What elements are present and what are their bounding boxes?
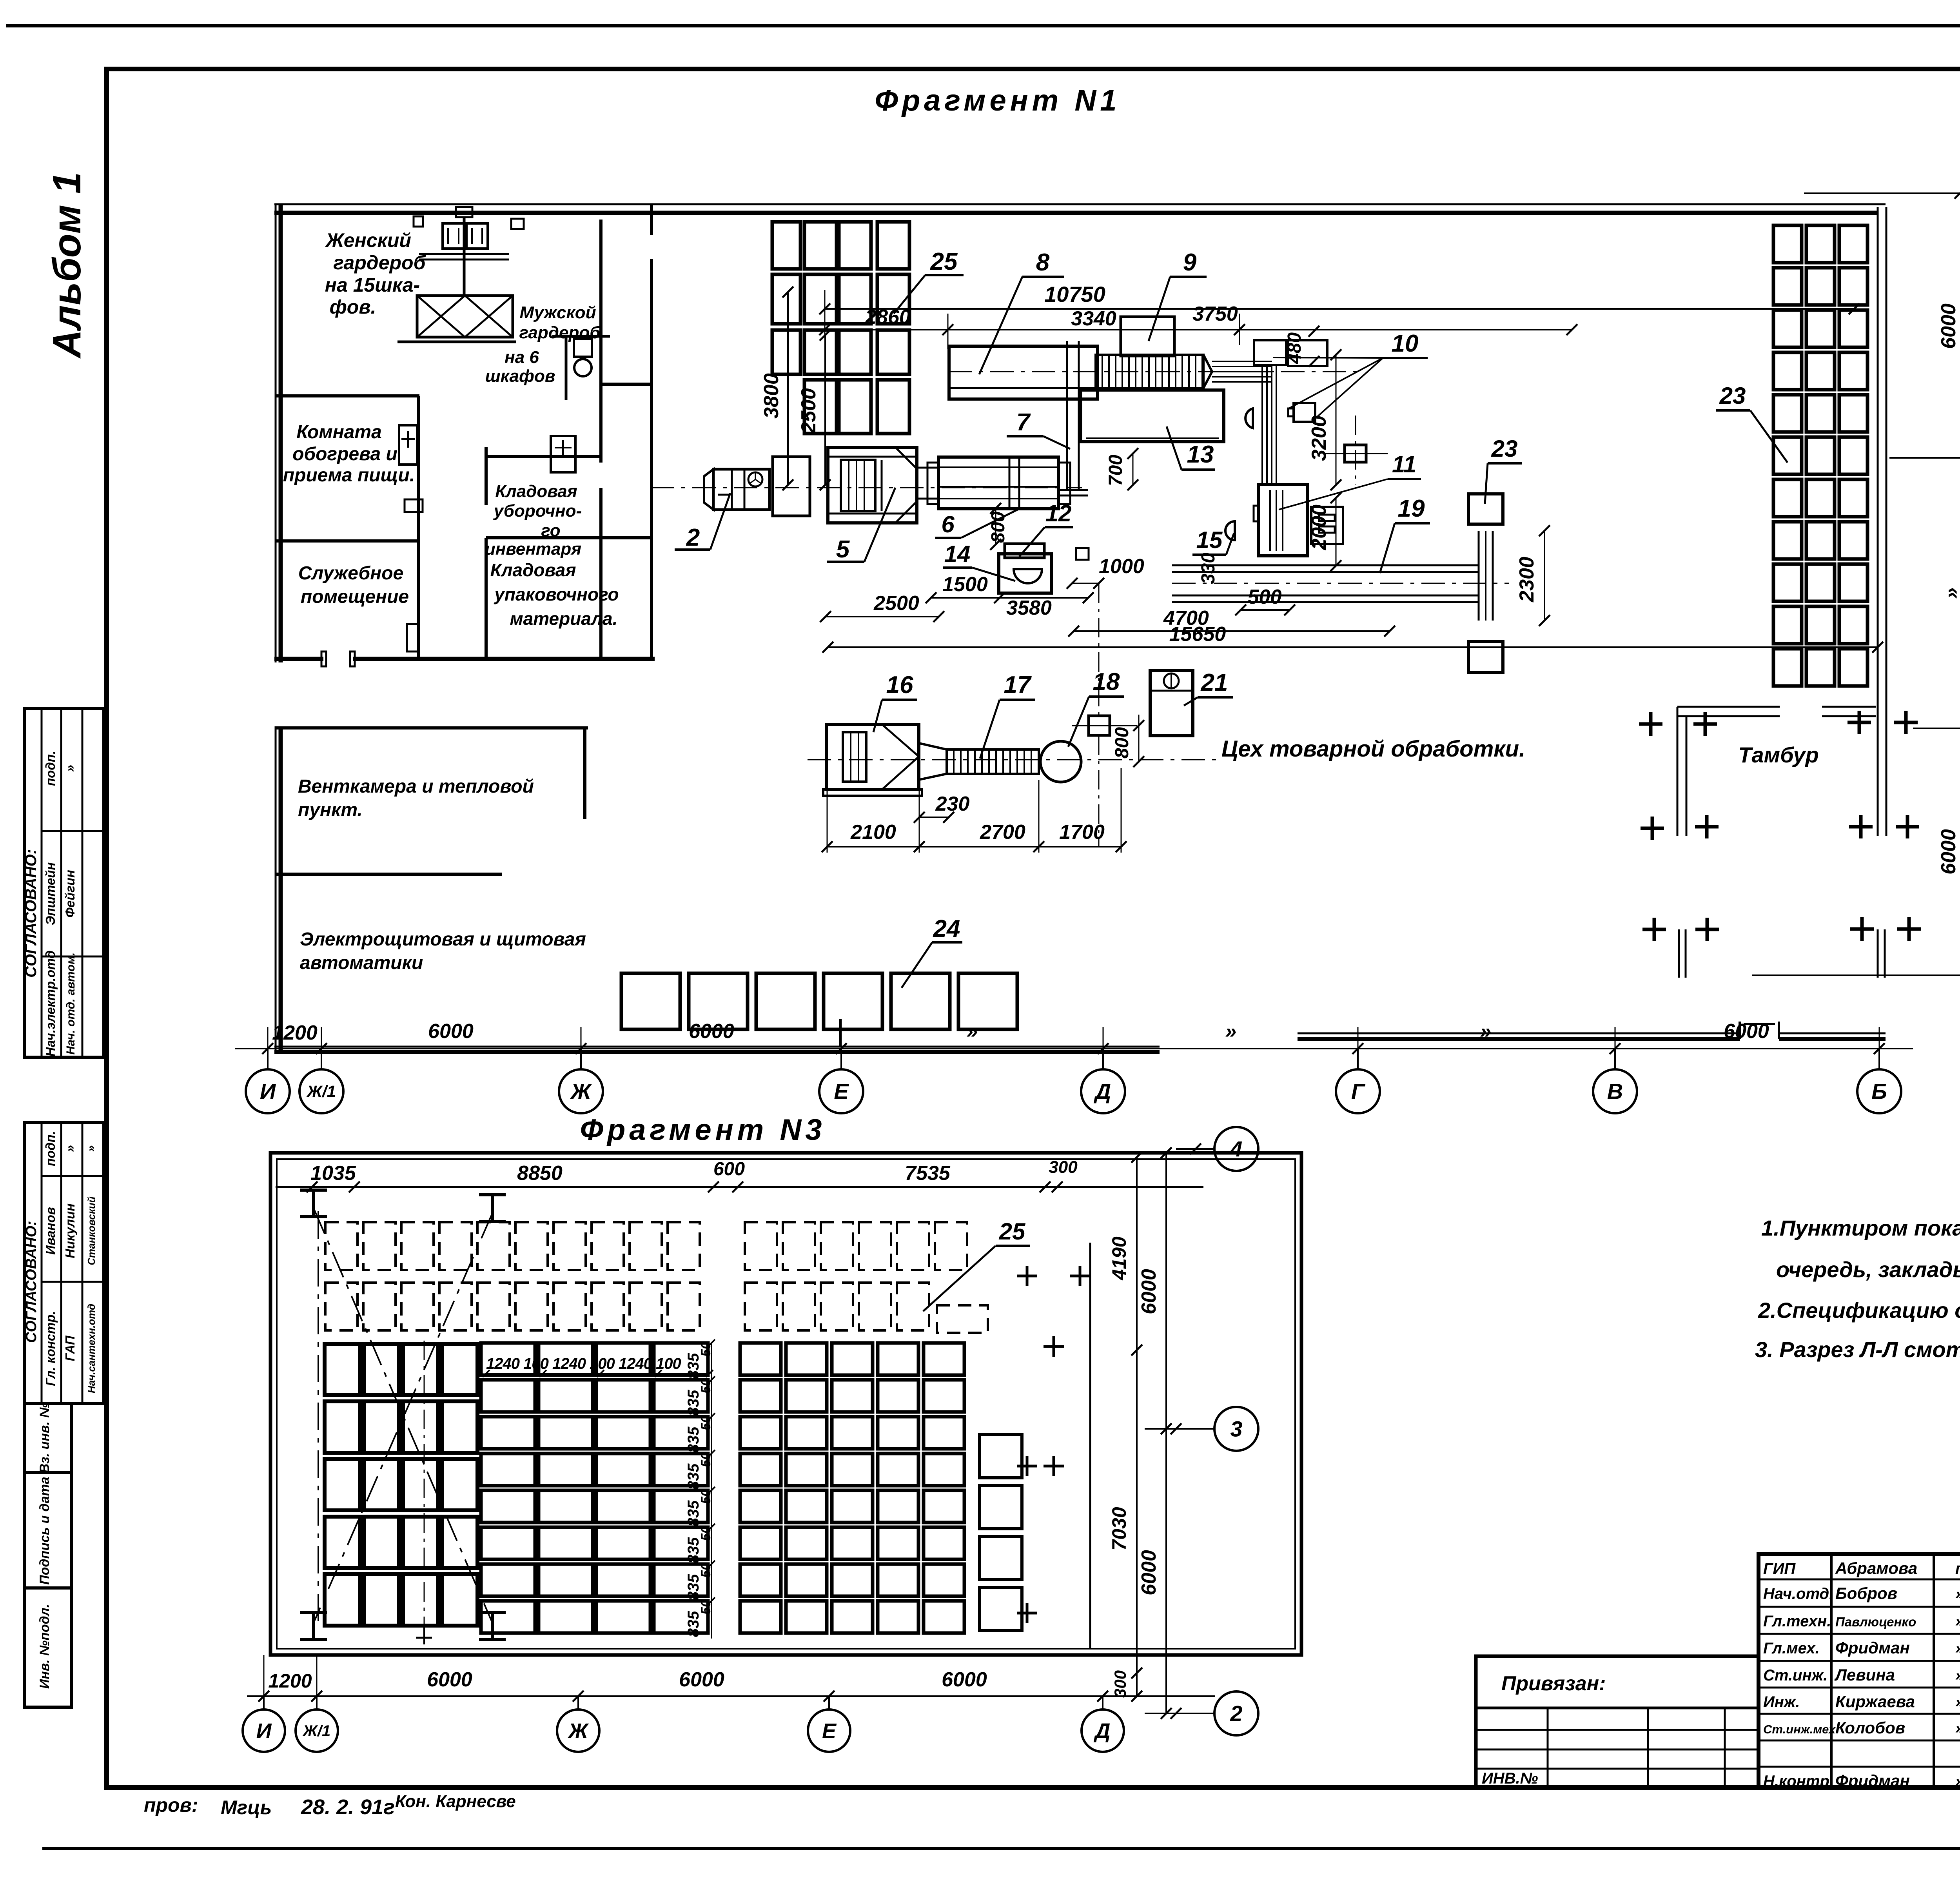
svg-text:Нач.отд.: Нач.отд.	[1763, 1585, 1833, 1602]
svg-text:гардероб: гардероб	[519, 323, 601, 342]
axis circles fragment3 bottom	[243, 1709, 285, 1752]
wall kladovaya top y1372	[486, 536, 652, 539]
svg-text:Ж: Ж	[567, 1719, 589, 1743]
plus marks fragment3	[1017, 1275, 1037, 1278]
heater room sink	[405, 499, 423, 512]
machine 8 table	[949, 346, 1098, 399]
svg-text:»: »	[1955, 1585, 1960, 1602]
svg-text:Г: Г	[1351, 1079, 1366, 1104]
svg-text:ИНВ.№: ИНВ.№	[1482, 1770, 1538, 1787]
svg-text:300: 300	[1049, 1158, 1078, 1177]
svg-text:9: 9	[1183, 249, 1197, 276]
svg-text:Подпись и дата: Подпись и дата	[37, 1477, 52, 1585]
svg-text:500: 500	[1248, 586, 1282, 608]
svg-text:Вз. инв. №: Вз. инв. №	[37, 1403, 52, 1474]
fragment3 right wall line	[1089, 1243, 1091, 1649]
fragment3 bottom dim line	[247, 1695, 1215, 1697]
upper mechanism boxes	[1254, 340, 1286, 365]
sluzhebnoe door jamb	[407, 624, 418, 651]
dim 500	[1241, 609, 1290, 611]
ibeam columns fragment3	[300, 1189, 327, 1192]
svg-text:6000: 6000	[1138, 1269, 1160, 1314]
svg-text:»: »	[1480, 1020, 1492, 1043]
svg-text:700: 700	[1105, 455, 1126, 486]
svg-text:Электрощитовая и щитовая: Электрощитовая и щитовая	[300, 929, 586, 950]
camera item	[1294, 403, 1315, 422]
svg-text:подп.: подп.	[43, 1131, 58, 1166]
svg-text:3800: 3800	[760, 373, 783, 419]
bench with X braces	[417, 296, 513, 337]
svg-text:Нач.сантехн.отд: Нач.сантехн.отд	[85, 1304, 97, 1393]
svg-text:5: 5	[836, 536, 850, 563]
dim 2300 rotated	[1544, 531, 1545, 621]
svg-text:СОГЛАСОВАНО:: СОГЛАСОВАНО:	[22, 849, 40, 978]
half moon item 15	[1225, 521, 1235, 540]
dim line 2860 3340 3750	[825, 329, 1572, 330]
machine 16	[827, 724, 919, 789]
svg-text:Д: Д	[1094, 1719, 1111, 1743]
svg-text:Фридман: Фридман	[1835, 1771, 1910, 1790]
wall long bottom left segment	[274, 1046, 1160, 1048]
dashed pallets row 2	[325, 1283, 358, 1330]
svg-text:Абрамова: Абрамова	[1835, 1559, 1917, 1577]
dim 1500 3580	[931, 597, 1088, 599]
fragment3 right dims inner	[1136, 1157, 1138, 1696]
svg-text:»: »	[1955, 1773, 1960, 1790]
svg-text:обогрева и: обогрева и	[292, 444, 397, 465]
small box on top wall a	[414, 216, 423, 227]
column marker mid	[1345, 445, 1366, 462]
svg-text:300: 300	[1111, 1670, 1129, 1698]
svg-text:Гл. констр.: Гл. констр.	[43, 1311, 58, 1386]
svg-text:2500: 2500	[797, 388, 820, 434]
axis row 7	[1752, 974, 1960, 976]
rail container top	[1468, 494, 1503, 524]
dim extension verticals top	[824, 290, 826, 337]
bench post	[463, 216, 466, 296]
bench base line	[397, 341, 516, 343]
machine 11 side box	[1311, 507, 1343, 544]
svg-text:приема пищи.: приема пищи.	[283, 465, 415, 486]
personnel table frame	[1759, 1554, 1960, 1787]
svg-text:Ст.инж.мех: Ст.инж.мех	[1763, 1722, 1836, 1736]
svg-text:упаковочного: упаковочного	[494, 584, 619, 604]
wall room divider vertical x1067	[417, 396, 420, 659]
svg-text:7030: 7030	[1108, 1507, 1130, 1550]
dims under stairs	[827, 846, 1121, 847]
svg-text:пров:: пров:	[144, 1794, 198, 1816]
machine 13 box	[1081, 390, 1224, 442]
svg-text:Кладовая: Кладовая	[490, 560, 576, 580]
dashed pallets row 1	[325, 1222, 358, 1270]
wall ventkamera top	[276, 726, 588, 729]
svg-text:24: 24	[933, 915, 960, 942]
svg-text:2100: 2100	[850, 821, 896, 844]
svg-text:»: »	[1955, 1720, 1960, 1737]
svg-text:И: И	[256, 1719, 272, 1743]
svg-text:Никулин: Никулин	[63, 1203, 77, 1258]
svg-text:2860: 2860	[865, 306, 911, 328]
svg-text:3750: 3750	[1192, 303, 1238, 325]
container grid 23 right	[1773, 225, 1802, 263]
svg-text:на 6: на 6	[505, 348, 539, 367]
svg-text:1.Пунктиром показаны поддоны,: 1.Пунктиром показаны поддоны, реализуемы…	[1761, 1216, 1960, 1240]
svg-text:8: 8	[1036, 249, 1050, 276]
svg-text:шкафов: шкафов	[485, 367, 555, 386]
axis row 10	[1804, 192, 1960, 194]
wall room-block right x1662	[650, 204, 653, 235]
svg-text:6000: 6000	[428, 1020, 474, 1043]
stamp table 1 frame	[24, 708, 104, 1057]
wall muzhskoy y980	[600, 383, 652, 386]
svg-text:»: »	[1940, 588, 1960, 599]
svg-text:материала.: материала.	[510, 608, 618, 629]
feeder stripes	[1212, 366, 1272, 367]
svg-text:Павлюценко: Павлюценко	[1835, 1615, 1916, 1629]
svg-text:800: 800	[988, 512, 1009, 543]
wall room divider horizontal y1380	[276, 539, 419, 543]
svg-text:подп.: подп.	[1955, 1560, 1960, 1577]
axis circle 3 fragment3	[1145, 1428, 1214, 1430]
wall kladovaya ubor y1165	[486, 455, 599, 458]
svg-text:Женский: Женский	[325, 229, 411, 251]
svg-text:3: 3	[1230, 1417, 1242, 1441]
svg-text:1035: 1035	[310, 1162, 356, 1185]
svg-text:2000: 2000	[1308, 504, 1330, 550]
small box on top wall b	[511, 219, 524, 229]
svg-text:Фрагмент N3: Фрагмент N3	[580, 1113, 826, 1147]
svg-text:»: »	[85, 1145, 98, 1152]
svg-text:25: 25	[930, 248, 958, 275]
svg-text:Венткамера и тепловой: Венткамера и тепловой	[298, 776, 534, 797]
svg-text:Киржаева: Киржаева	[1835, 1692, 1915, 1711]
svg-text:Гл.мех.: Гл.мех.	[1763, 1640, 1820, 1657]
svg-text:1000: 1000	[1099, 555, 1144, 578]
rail container bottom	[1468, 642, 1503, 672]
svg-text:Фридман: Фридман	[1835, 1639, 1910, 1657]
svg-text:Фейгин: Фейгин	[63, 870, 77, 918]
svg-text:Б: Б	[1871, 1079, 1887, 1104]
wall top thick	[274, 211, 1877, 215]
wall long bottom right segment	[1298, 1033, 1740, 1034]
machine 5 press	[828, 447, 917, 523]
machine 11 elevator	[1258, 485, 1307, 556]
solid grid left 4x5	[325, 1344, 360, 1395]
column axis vertical mid	[1355, 416, 1356, 485]
svg-text:Д: Д	[1094, 1079, 1111, 1104]
machine 2 box B	[773, 457, 810, 516]
containers row 24	[621, 973, 680, 1029]
svg-text:16: 16	[886, 671, 913, 699]
axis circle 4 fragment3	[1176, 1148, 1214, 1150]
wall right column x4790	[1877, 207, 1879, 836]
svg-text:Кладовая: Кладовая	[495, 482, 577, 501]
svg-text:автоматики: автоматики	[300, 953, 423, 973]
svg-text:И: И	[260, 1079, 276, 1104]
stamp table 2 frame	[24, 1123, 104, 1403]
dim 800 vertical near 21	[1138, 715, 1140, 762]
svg-text:Цех товарной обработки.: Цех товарной обработки.	[1221, 736, 1525, 762]
wall kladovaya divider vertical x1240	[485, 538, 488, 659]
svg-text:2300: 2300	[1515, 557, 1538, 602]
svg-text:10: 10	[1392, 330, 1419, 357]
svg-text:Гл.техн.: Гл.техн.	[1763, 1613, 1831, 1630]
container grid 25	[772, 222, 800, 269]
axis circle 2 fragment3	[1145, 1713, 1214, 1714]
svg-text:Мгць: Мгць	[221, 1797, 272, 1818]
heater room table	[399, 425, 417, 465]
solid grid right 5x8	[740, 1343, 781, 1375]
svg-text:Нач.электр.отд: Нач.электр.отд	[43, 951, 58, 1057]
dim 3200 rotated	[1336, 355, 1337, 485]
svg-text:ГАП: ГАП	[63, 1335, 77, 1361]
centerline conveyor row	[949, 371, 1360, 372]
wall kladovaya ubor stub vertical	[485, 447, 488, 505]
svg-text:8850: 8850	[517, 1162, 563, 1185]
dim 2000 rotated	[1336, 498, 1337, 566]
machine 9 box	[1121, 317, 1174, 356]
privyazan block	[1476, 1656, 1759, 1787]
svg-text:В: В	[1607, 1079, 1623, 1104]
stamp box Подпись и дата	[24, 1473, 71, 1588]
svg-text:Ж/1: Ж/1	[302, 1722, 330, 1740]
dim 15650	[828, 646, 1878, 648]
svg-text:Станковский: Станковский	[85, 1196, 97, 1265]
svg-text:13: 13	[1187, 441, 1214, 468]
machine 21 box	[1150, 671, 1193, 736]
wardrobe lockers top	[443, 223, 464, 249]
svg-text:1240 100 1240 100 1240 100: 1240 100 1240 100 1240 100	[486, 1355, 681, 1372]
tambur wall upper left	[1677, 706, 1780, 708]
svg-text:фов.: фов.	[330, 296, 376, 318]
svg-text:6000: 6000	[1937, 303, 1960, 349]
svg-text:пункт.: пункт.	[298, 800, 363, 820]
dim 1000	[1072, 583, 1099, 584]
svg-text:Кон. Карнесве: Кон. Карнесве	[395, 1792, 516, 1811]
svg-text:800: 800	[1112, 727, 1132, 759]
svg-text:ГИП: ГИП	[1763, 1560, 1796, 1577]
equipment row centerline	[808, 759, 1219, 760]
svg-text:Бобров: Бобров	[1835, 1584, 1897, 1602]
svg-text:3340: 3340	[1071, 307, 1116, 330]
sheet top edge line	[6, 24, 1960, 27]
half moon item top	[1245, 408, 1253, 428]
svg-text:Левина: Левина	[1834, 1666, 1895, 1684]
svg-text:6000: 6000	[427, 1668, 472, 1691]
rail cross post	[1478, 531, 1480, 621]
svg-text:14: 14	[944, 541, 971, 567]
svg-text:Н.контр.: Н.контр.	[1763, 1773, 1834, 1790]
fragment 3 top dims	[276, 1186, 1203, 1188]
wall garderob divider vertical x1533	[599, 220, 603, 463]
svg-text:230: 230	[935, 793, 970, 815]
machine 2 weigher	[704, 469, 713, 510]
svg-text:23: 23	[1491, 436, 1518, 462]
svg-text:помещение: помещение	[301, 586, 409, 607]
door stub small	[839, 1019, 842, 1047]
svg-text:330: 330	[1198, 553, 1219, 584]
tambur wall upper right	[1822, 706, 1876, 708]
svg-text:1500: 1500	[942, 573, 988, 596]
rail centerline	[1172, 583, 1509, 584]
machine 18 circle	[1040, 741, 1081, 782]
muzhskoy bench base	[552, 335, 610, 338]
fragment3 right dims outer	[1165, 1153, 1167, 1713]
dim 3800 vertical	[787, 292, 789, 485]
stamp box Инв.№подл	[24, 1588, 71, 1707]
fragment 3 outer rect	[270, 1153, 1301, 1655]
wall electro divider	[276, 873, 502, 876]
svg-text:Мужской: Мужской	[519, 303, 596, 322]
svg-text:Е: Е	[822, 1719, 837, 1743]
svg-text:Эпштейн: Эпштейн	[43, 862, 58, 925]
svg-text:Ст.инж.: Ст.инж.	[1763, 1667, 1828, 1684]
svg-text:19: 19	[1398, 495, 1425, 522]
svg-text:Комната: Комната	[296, 422, 382, 443]
dim 800 vertical machine6	[995, 508, 996, 544]
machine 12 tray	[1005, 544, 1044, 558]
svg-text:2700: 2700	[980, 821, 1025, 844]
svg-text:11: 11	[1392, 451, 1416, 477]
wall room-block bottom	[274, 657, 323, 661]
svg-text:1200: 1200	[268, 1670, 312, 1692]
machine 6 conveyor	[938, 457, 1058, 509]
svg-text:2.Спецификацию оборудования: 2.Спецификацию оборудования смотри листы…	[1758, 1298, 1960, 1323]
svg-text:17: 17	[1004, 671, 1032, 699]
svg-text:15650: 15650	[1169, 623, 1226, 646]
svg-text:»: »	[1955, 1613, 1960, 1630]
svg-text:23: 23	[1719, 383, 1746, 409]
wall room divider horizontal y1010	[276, 394, 419, 397]
svg-text:Привязан:: Привязан:	[1501, 1672, 1606, 1695]
svg-text:10750: 10750	[1044, 282, 1105, 307]
svg-text:»: »	[1955, 1667, 1960, 1684]
svg-text:»: »	[63, 1145, 77, 1152]
svg-text:Инв. №подл.: Инв. №подл.	[37, 1604, 52, 1689]
svg-text:»: »	[967, 1020, 978, 1043]
svg-text:4: 4	[1230, 1137, 1242, 1161]
svg-text:1700: 1700	[1059, 821, 1105, 844]
svg-text:Тамбур: Тамбур	[1738, 742, 1818, 767]
wall ventkamera right stub	[583, 728, 586, 819]
svg-text:очередь, закладываемые- в пос: очередь, закладываемые- в последнюю.	[1776, 1257, 1960, 1282]
machine 17 stairs	[919, 743, 947, 780]
svg-text:4190: 4190	[1108, 1236, 1130, 1280]
dim 2500 vertical	[824, 335, 826, 485]
toilet bowl	[574, 339, 592, 357]
axis extension stubs bottom	[267, 1027, 269, 1049]
axis row 9	[1889, 457, 1960, 459]
wall ventkamera left	[275, 726, 277, 1054]
tambur cross marks	[1639, 722, 1662, 726]
svg-text:6000: 6000	[1937, 829, 1960, 875]
svg-text:Иванов: Иванов	[43, 1207, 58, 1255]
svg-text:6000: 6000	[679, 1668, 724, 1691]
svg-text:Фрагмент N1: Фрагмент N1	[875, 84, 1121, 117]
svg-text:Альбом 1: Альбом 1	[45, 172, 89, 359]
svg-text:18: 18	[1093, 668, 1120, 695]
svg-text:го: го	[541, 521, 560, 540]
svg-text:25: 25	[999, 1218, 1026, 1245]
svg-text:6000: 6000	[689, 1020, 734, 1043]
svg-text:7535: 7535	[905, 1162, 951, 1185]
axis line bottom fragment1	[235, 1048, 1913, 1049]
extra column right	[980, 1435, 1022, 1478]
svg-text:7: 7	[1016, 409, 1031, 436]
conveyor ladder 10	[1096, 355, 1203, 388]
svg-text:28. 2. 91г: 28. 2. 91г	[301, 1795, 395, 1819]
tiny dims 835 50 column	[711, 1343, 712, 1639]
muzhskoy partition	[565, 336, 568, 400]
svg-text:на 15шка-: на 15шка-	[325, 274, 420, 296]
crane diagonals	[314, 1208, 492, 1623]
svg-text:Инж.: Инж.	[1763, 1693, 1800, 1711]
dim 700 rotated	[1132, 454, 1134, 485]
svg-text:Служебное: Служебное	[298, 563, 404, 584]
axis row 8	[1913, 728, 1960, 729]
svg-text:15: 15	[1196, 527, 1223, 553]
machine 7 vertical conveyor	[1066, 341, 1068, 490]
svg-text:»: »	[1225, 1020, 1237, 1043]
svg-text:подп.: подп.	[43, 751, 58, 786]
kladovaya ubor table	[551, 436, 575, 472]
svg-text:2500: 2500	[873, 592, 919, 615]
door leaf at bottom wall	[1739, 1022, 1741, 1039]
svg-text:»: »	[1955, 1640, 1960, 1657]
fragment3 extension verticals	[263, 1655, 265, 1696]
axis circles bottom fragment1	[246, 1069, 290, 1113]
svg-text:Нач. отд. автом.: Нач. отд. автом.	[64, 953, 77, 1055]
stamp box Вз.инв.№	[24, 1403, 71, 1473]
svg-text:6000: 6000	[942, 1668, 987, 1691]
column marker near 21	[1089, 716, 1110, 735]
svg-text:6000: 6000	[1138, 1550, 1160, 1595]
left grid centerline vertical	[424, 1341, 425, 1635]
svg-text:»: »	[1955, 1693, 1960, 1711]
svg-text:уборочно-: уборочно-	[493, 501, 582, 521]
dim 2500 bottom	[826, 616, 939, 617]
elevator verticals	[1261, 365, 1263, 485]
svg-text:480: 480	[1284, 332, 1305, 364]
svg-text:2: 2	[1230, 1701, 1242, 1726]
svg-text:Е: Е	[834, 1079, 849, 1104]
centerline machines left	[651, 487, 1082, 488]
svg-text:21: 21	[1201, 669, 1228, 696]
svg-text:СОГЛАСОВАНО:: СОГЛАСОВАНО:	[23, 1221, 40, 1343]
garderob rail	[419, 253, 509, 255]
svg-text:Ж: Ж	[570, 1079, 592, 1104]
tambur wall stubs lower	[1678, 929, 1680, 978]
svg-text:Ж/1: Ж/1	[306, 1082, 336, 1101]
dim 4700	[1074, 630, 1390, 632]
svg-text:Колобов: Колобов	[1835, 1718, 1905, 1737]
svg-text:2: 2	[686, 524, 700, 551]
svg-text:1200: 1200	[272, 1022, 318, 1044]
sheet bottom edge line	[42, 1847, 1960, 1850]
svg-text:гардероб: гардероб	[333, 252, 426, 274]
svg-text:6: 6	[941, 511, 955, 537]
svg-text:12: 12	[1045, 500, 1072, 526]
dim line 10750	[825, 308, 1854, 310]
wall room-block left	[275, 204, 277, 662]
svg-text:6000: 6000	[1724, 1020, 1769, 1043]
svg-text:3580: 3580	[1006, 597, 1052, 619]
svg-text:600: 600	[713, 1159, 745, 1180]
svg-text:»: »	[63, 765, 77, 772]
svg-text:3. Разрез Л-Л смотри лис: 3. Разрез Л-Л смотри лист Тх-5.	[1755, 1337, 1960, 1362]
rails 19	[1172, 564, 1479, 566]
svg-text:инвентаря: инвентаря	[485, 539, 581, 559]
